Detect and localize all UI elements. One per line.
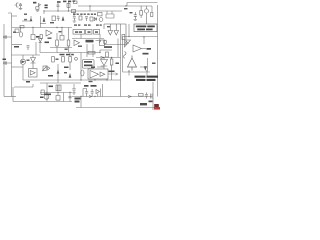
wire left stub y44 [12,44,22,46]
wire bottom bus [13,101,72,103]
potentiometer VR1 [43,66,46,71]
wire bottom box sides [83,89,101,97]
wire v x103 [102,84,104,97]
wire v x107 [106,11,108,14]
box small [40,35,42,39]
wire d6 [103,58,105,70]
box B4 [60,36,64,41]
wire v x44 top [43,11,45,14]
label s7 [13,32,16,33]
box row2 b1 [15,29,19,32]
label 4.7k [45,94,52,96]
label s5 [27,60,30,61]
wire mid bus right [72,38,104,40]
label 2x [33,2,36,4]
capacitor C8 [3,61,12,64]
wire v x118 [117,39,119,58]
wire v x20 [20,28,22,32]
box DUAL [88,69,108,79]
capacitor C9 [68,96,71,97]
label c22 [147,48,152,50]
label s1 [24,14,27,15]
wire top bus upper [78,5,152,7]
box IF3 [72,10,76,13]
wire mid box bottom [104,44,126,46]
wire row2 bus [12,27,72,29]
connector J1 [15,3,19,7]
capacitor C6 [134,12,137,19]
label tuner txt [84,61,92,63]
label s12 [89,81,93,82]
wire volume line [22,16,31,21]
label rear view block [135,76,159,81]
wire detector bus [96,57,121,59]
resistor R1 [36,7,39,9]
wire r13 [111,58,113,81]
wire v x93 [92,44,94,57]
resistor R16 [106,52,109,57]
wire bottom mid bus [40,92,72,94]
capacitor C3 [57,16,60,22]
wire v x90 stub [89,6,91,11]
capacitor C1 [19,3,22,8]
wire v x87 [86,44,88,57]
box AMP2 [29,69,38,78]
wire v x62 [61,28,63,36]
label blk1 text [75,31,78,33]
label blk3 text [95,31,98,33]
label blk2 text [88,31,91,33]
wire left rail B [8,13,12,97]
box blk1 [73,30,85,35]
wire d7 [97,94,99,97]
resistor R2 [67,4,70,8]
wire v x44 arrow [43,18,45,22]
diode D5 [48,67,50,71]
curve S [123,52,126,59]
label 4.5v [36,36,39,38]
resistor R3 [79,16,82,20]
box B6 [41,90,44,95]
diode T down1 [108,24,113,35]
transistor Q1 [99,18,103,22]
diode arrow A5 [69,74,71,78]
box B7 [56,96,60,101]
label s8 [124,8,128,9]
resistor R13 [110,59,113,65]
wire v x152 top [151,6,153,12]
box BEAT label [134,24,157,32]
resistor R8 [56,40,59,46]
diode arrow A2 [43,18,45,22]
diode D6 [101,60,108,67]
label 1sfr [104,46,112,48]
diode arrow A3 [62,17,64,21]
label 0.1u [45,42,50,44]
wire y50 stub [100,50,112,53]
label under blk [78,46,82,47]
op-amp U3 [74,40,80,46]
wire q2 leads [146,6,148,24]
transistor Q2 [144,9,148,13]
wire h y74 right box [140,66,148,68]
wire y23 stub [40,23,46,25]
label top t3 [68,1,71,3]
wire v x100 [99,34,101,39]
label +B [152,63,156,65]
capacitor C7 [3,35,12,38]
transistor Q3 [44,94,49,99]
diode arrow A4 [57,70,59,74]
resistor R11 [62,57,65,63]
watermark logo dark part [154,104,159,107]
label 1uF [91,85,97,87]
wire top right corner [127,3,158,7]
op-amp U9 [90,71,99,79]
op-amp U10 [100,72,105,76]
transformer T1 [52,16,56,21]
diode D1 [39,4,41,7]
wire r15 leads [69,53,71,71]
ground [134,19,138,20]
wire v rail right pair [120,24,122,97]
wire left mid low [12,54,41,56]
resistor R15 [69,57,72,63]
label row y13 a [73,14,76,15]
label ct2 [48,75,53,77]
ground [72,93,76,94]
wire v x58 bottom [57,93,59,96]
box mid right edges [104,24,126,45]
wire v x23 [22,65,24,80]
resistor R12 [88,51,95,54]
marks right bottom [151,94,153,99]
label row y13 c [87,14,89,15]
label 100n [84,85,89,87]
wire d4 top [22,55,24,59]
diode D3 [39,39,43,43]
capacitor C2 [57,5,60,6]
flag triangle U4 [125,40,131,47]
wire r5 leads [140,6,142,18]
wire h y67 right [97,66,104,68]
power amp triangle U7 [128,56,137,71]
wire v x129 [128,24,130,76]
arrow mid [96,40,101,43]
box B5 [100,40,105,46]
label s2 [48,38,52,39]
arrow on bus [89,95,92,98]
junction dots [43,10,44,11]
box B3 [31,35,35,40]
wire left rail A [3,24,5,97]
wire v x57 mid [56,33,58,53]
wire v x47 bottom [46,83,48,102]
ground [19,8,22,9]
wire mid bus left low [40,52,100,54]
label s10 [107,26,110,27]
capacitor C10 [72,89,75,93]
wire right frame [157,5,159,97]
resistor oval VR3 [81,70,84,76]
op-amp U8 [30,71,35,76]
box F1 [74,1,78,4]
diode D2 [94,18,96,21]
wire v x68 top [68,2,70,11]
wire v x63 bottom [63,93,65,102]
resistor R14 [139,94,144,97]
label row y24 a [74,24,77,25]
label ct3 [64,67,69,69]
watermark logo red part [154,107,160,110]
wire v x58 low [57,64,59,83]
wire low bus [23,79,121,81]
box IF2 [98,13,103,16]
wire v x147 [146,71,148,76]
resistor R10 [52,57,55,63]
capacitor C12 [85,89,88,97]
label s9 [130,12,133,13]
wire v x153 low [152,82,154,110]
wire v x74 bottom [73,84,75,88]
wire v x68 mid [68,28,70,53]
ground [73,21,76,22]
wire v x36 [35,42,37,55]
label row y24 c [96,24,99,25]
box inner [122,35,125,40]
label s11 [64,72,67,73]
diode D7 [96,90,100,94]
label amp out [143,53,149,55]
diode T down2 [114,24,119,35]
capacitor C14 [27,46,30,51]
label s4 [65,49,68,50]
label xtal [140,103,147,105]
wire low bus2 [40,82,81,84]
box row2 b2 [20,26,24,28]
label 4.3k [45,5,48,7]
label 7.5v row [60,54,65,56]
transformer T2 [56,85,61,91]
wire v x56 top [57,3,59,11]
capacitor C4 [73,17,76,21]
wire mid box sides [106,14,114,18]
wire v x112 [111,11,113,14]
label top t2 [63,1,66,3]
diode arrow A6 [144,67,146,71]
wire top bus lower [44,10,122,12]
wire v x144 [144,37,148,71]
label mute [86,40,94,43]
resistor oval VR2 [20,32,23,37]
capacitor C5 [85,17,88,22]
arrow detector [101,56,104,58]
label ct1 [26,81,30,83]
label s6 [56,59,59,60]
label s3 [59,31,62,32]
label 1n [3,59,7,61]
transistor Q4b [75,57,78,60]
wire left low [12,66,24,68]
label det [109,71,115,73]
label above logo [149,101,153,103]
label vol [24,18,27,21]
ground [36,10,39,11]
label top t4 [73,0,76,1]
transistor Q5 [103,40,107,44]
capacitor C11 [145,93,148,99]
label esw [75,98,81,100]
wire bottom mid bus2 [72,96,152,98]
diode arrow A1 [30,19,32,22]
wire v x74 [73,11,75,16]
wire bottom bus right [76,107,158,109]
box blk3 [94,30,100,35]
label row y24 b [84,24,87,25]
label dual [91,67,95,69]
resistor R6 [151,13,153,17]
label 47k [116,63,120,65]
resistor R9 [67,40,70,46]
label top t1 [57,1,61,3]
wire v x81 [80,34,82,108]
box blk2 [86,30,93,35]
op-amp U5 [133,45,146,52]
capacitor C13 [91,89,94,97]
label q3 [40,97,44,99]
wire mid short [50,47,72,49]
box TUNER [83,60,95,69]
wire v x40 [39,42,41,53]
diode D8 [31,55,36,69]
wire ground bus left [4,96,16,98]
label row y13 b [80,14,82,15]
wire right box [123,37,158,73]
wire v x33 [32,28,34,34]
wire v x70 bottom [69,93,71,102]
arrow on bus right [128,95,131,97]
label 2.2k [49,86,54,88]
wire v x40 upper [40,16,42,28]
wire box corner left [12,15,18,17]
label 455 [50,22,54,23]
diode circle D4 [20,59,25,64]
wire dual out [108,73,118,75]
op-amp U2 [46,30,52,36]
resistor R4 [90,17,93,21]
resistor R5 [140,11,143,16]
wire bottom step [13,84,33,102]
label y44 [14,46,19,48]
